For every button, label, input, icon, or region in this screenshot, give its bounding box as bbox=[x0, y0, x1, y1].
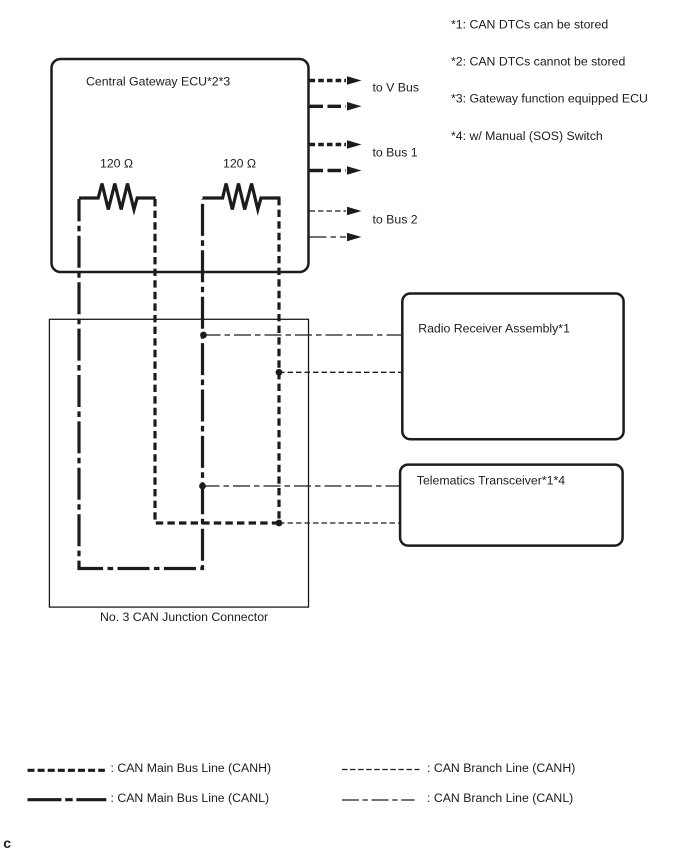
arrow 6 CANL thin to Bus 2 bbox=[310, 233, 362, 242]
svg-text:to Bus 2: to Bus 2 bbox=[373, 213, 418, 227]
arrow 5 CANH thin to Bus 2 bbox=[310, 207, 362, 216]
wire CANL branch to Radio Receiver bbox=[204, 334, 402, 336]
svg-text:*2: CAN DTCs cannot be stored: *2: CAN DTCs cannot be stored bbox=[451, 55, 625, 69]
svg-text:: CAN Branch Line (CANH): : CAN Branch Line (CANH) bbox=[427, 761, 575, 775]
svg-text:: CAN Main Bus Line (CANL): : CAN Main Bus Line (CANL) bbox=[111, 791, 270, 805]
svg-text:No. 3 CAN Junction Connector: No. 3 CAN Junction Connector bbox=[100, 610, 268, 624]
resistor R1 bbox=[79, 184, 156, 210]
junction node dot 2 (CANH to radio) bbox=[276, 369, 283, 376]
junction node dot 4 (CANH to telematics) bbox=[276, 520, 283, 527]
svg-text:*3: Gateway function equipped: *3: Gateway function equipped ECU bbox=[451, 91, 648, 105]
svg-text:to V Bus: to V Bus bbox=[373, 81, 419, 95]
arrow 3 CANH thick to Bus 1 bbox=[310, 140, 362, 149]
svg-text:c: c bbox=[3, 835, 11, 851]
legend sample CAN Branch Line CANL bbox=[342, 799, 415, 801]
ECU box U1: Central Gateway ECU bbox=[52, 59, 309, 272]
resistor R2 bbox=[203, 184, 281, 210]
box: Telematics Transceiver bbox=[400, 465, 622, 546]
legend sample CAN Main Bus Line CANL bbox=[28, 798, 107, 801]
svg-text:: CAN Main Bus Line (CANH): : CAN Main Bus Line (CANH) bbox=[111, 761, 272, 775]
wire CANH branch to Telematics bbox=[279, 522, 400, 524]
wire CANH main bus (left resistor right lead, down, right, up to right resistor) bbox=[155, 199, 279, 523]
junction node dot 3 (CANL to telematics) bbox=[199, 483, 206, 490]
svg-text:*1: CAN DTCs can be stored: *1: CAN DTCs can be stored bbox=[451, 18, 608, 32]
connector box: No. 3 CAN Junction Connector bbox=[49, 319, 308, 607]
arrow 4 CANL thick to Bus 1 bbox=[310, 166, 362, 175]
wire CANH branch to Radio Receiver bbox=[279, 371, 402, 373]
svg-text:Central Gateway ECU*2*3: Central Gateway ECU*2*3 bbox=[86, 75, 230, 89]
arrow 1 CANH thick to V Bus bbox=[310, 76, 362, 85]
svg-text:120 Ω: 120 Ω bbox=[100, 157, 133, 171]
svg-text:Radio Receiver Assembly*1: Radio Receiver Assembly*1 bbox=[418, 322, 570, 336]
wire CANL branch to Telematics bbox=[203, 485, 401, 487]
svg-text:*4: w/ Manual (SOS) Switch: *4: w/ Manual (SOS) Switch bbox=[451, 129, 603, 143]
box: Radio Receiver Assembly bbox=[402, 294, 623, 440]
svg-text:to Bus 1: to Bus 1 bbox=[373, 146, 418, 160]
wire CANL main bus (left resistor left lead, down, right, up to right resistor) bbox=[79, 199, 203, 569]
legend sample CAN Branch Line CANH bbox=[342, 769, 420, 771]
svg-text:120 Ω: 120 Ω bbox=[223, 157, 256, 171]
legend sample CAN Main Bus Line CANH bbox=[28, 769, 105, 772]
svg-text:Telematics Transceiver*1*4: Telematics Transceiver*1*4 bbox=[417, 474, 565, 488]
svg-text:: CAN Branch Line (CANL): : CAN Branch Line (CANL) bbox=[427, 791, 573, 805]
arrow 2 CANL thick to V Bus bbox=[310, 102, 362, 111]
junction node dot 1 (CANL to radio) bbox=[200, 332, 207, 339]
